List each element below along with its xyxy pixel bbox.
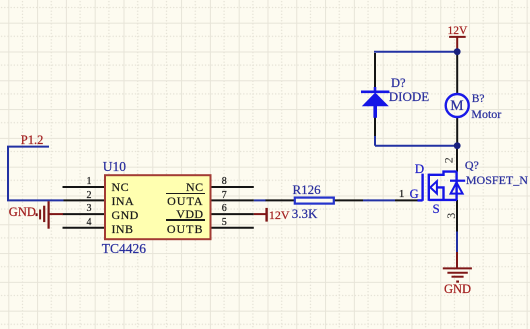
svg-text:2: 2 bbox=[441, 157, 455, 163]
svg-text:3: 3 bbox=[444, 213, 458, 219]
